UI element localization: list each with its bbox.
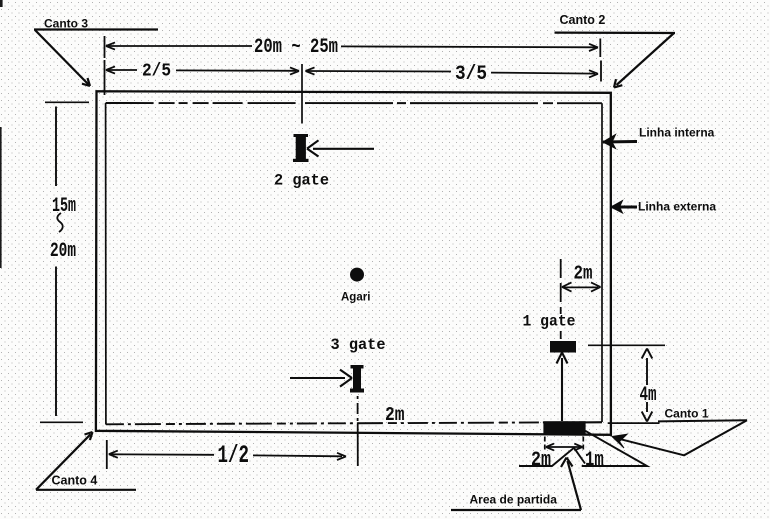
svg-text:Canto 2: Canto 2: [560, 13, 606, 27]
svg-text:2m: 2m: [574, 263, 593, 285]
svg-text:Canto 3: Canto 3: [44, 17, 88, 31]
svg-text:Canto 4: Canto 4: [52, 474, 98, 488]
svg-text:1 gate: 1 gate: [523, 313, 576, 331]
svg-text:2m: 2m: [531, 449, 551, 472]
svg-text:1/2: 1/2: [218, 441, 250, 470]
svg-text:Linha externa: Linha externa: [638, 200, 716, 214]
svg-text:2m: 2m: [385, 404, 405, 426]
svg-text:2 gate: 2 gate: [274, 172, 329, 190]
svg-text:2/5: 2/5: [142, 62, 171, 82]
svg-text:20m ~ 25m: 20m ~ 25m: [254, 36, 338, 59]
svg-text:1m: 1m: [585, 449, 604, 472]
svg-text:3/5: 3/5: [455, 63, 487, 86]
svg-text:Linha interna: Linha interna: [639, 126, 715, 140]
svg-text:4m: 4m: [640, 384, 657, 407]
svg-text:15m: 15m: [52, 195, 76, 218]
svg-text:Agari: Agari: [341, 292, 370, 304]
svg-text:3 gate: 3 gate: [331, 336, 386, 354]
svg-text:Canto 1: Canto 1: [665, 407, 709, 421]
svg-text:Area de partida: Area de partida: [470, 493, 558, 507]
svg-text:20m: 20m: [50, 240, 76, 263]
